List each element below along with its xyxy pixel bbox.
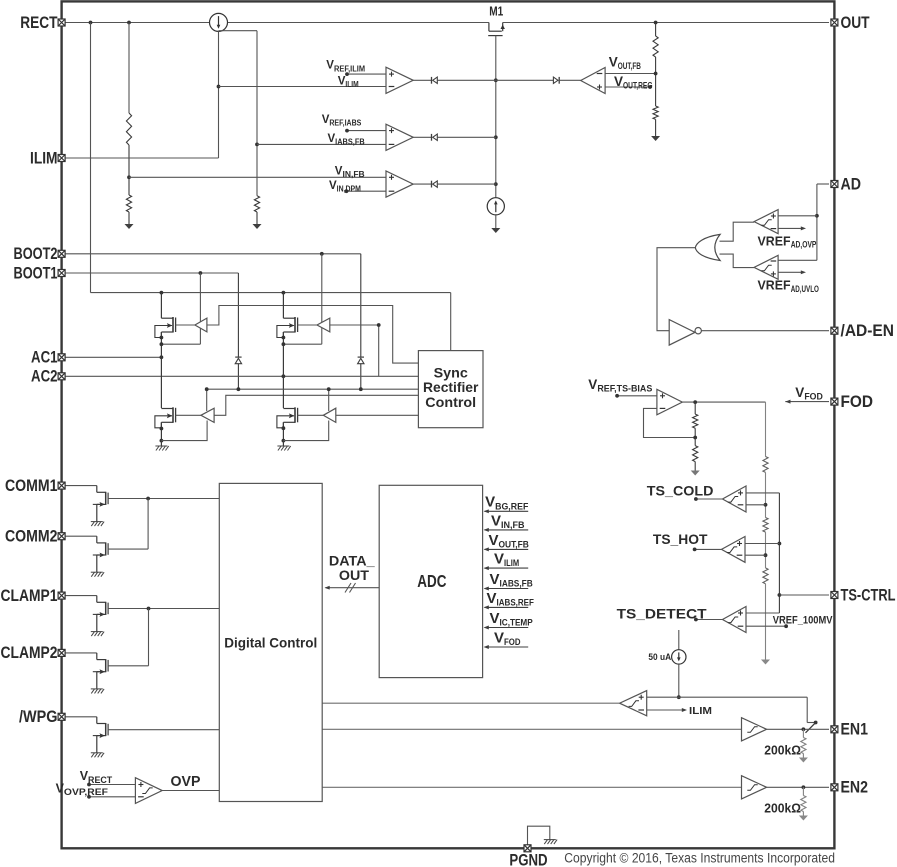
svg-text:OUT: OUT	[339, 567, 370, 583]
svg-text:BOOT1: BOOT1	[14, 264, 58, 282]
svg-text:ILIM: ILIM	[30, 149, 58, 167]
svg-text:COMM2: COMM2	[5, 528, 58, 546]
svg-text:200kΩ: 200kΩ	[764, 800, 801, 815]
svg-text:AD: AD	[841, 175, 862, 193]
svg-text:RECT: RECT	[20, 14, 57, 32]
svg-text:PGND: PGND	[509, 851, 547, 867]
svg-text:/WPG: /WPG	[19, 708, 58, 726]
svg-text:Control: Control	[425, 394, 476, 410]
svg-text:VREF: VREF	[758, 233, 791, 248]
svg-text:EN2: EN2	[841, 779, 869, 797]
svg-text:Sync: Sync	[434, 364, 468, 380]
svg-text:AC1: AC1	[31, 349, 58, 367]
svg-text:OUT: OUT	[841, 14, 870, 32]
svg-text:AD,UVLO: AD,UVLO	[791, 284, 819, 294]
svg-text:TS-CTRL: TS-CTRL	[841, 586, 896, 604]
svg-text:/AD-EN: /AD-EN	[841, 322, 895, 340]
svg-text:VREF_100MV: VREF_100MV	[773, 615, 833, 627]
svg-text:AD,OVP: AD,OVP	[791, 240, 817, 250]
svg-text:COMM1: COMM1	[5, 477, 58, 495]
svg-text:BOOT2: BOOT2	[14, 245, 58, 263]
svg-text:AC2: AC2	[31, 368, 58, 386]
svg-text:FOD: FOD	[841, 393, 874, 411]
svg-text:VREF: VREF	[758, 278, 791, 293]
svg-text:ILIM: ILIM	[689, 705, 712, 717]
svg-text:TS_DETECT: TS_DETECT	[617, 606, 707, 622]
svg-text:EN1: EN1	[841, 721, 869, 739]
svg-text:TS_COLD: TS_COLD	[647, 483, 714, 499]
svg-text:M1: M1	[489, 4, 503, 18]
svg-text:Rectifier: Rectifier	[423, 379, 479, 395]
svg-text:CLAMP1: CLAMP1	[1, 587, 58, 605]
svg-text:ADC: ADC	[417, 571, 446, 591]
svg-text:CLAMP2: CLAMP2	[1, 644, 58, 662]
svg-text:200kΩ: 200kΩ	[764, 742, 801, 757]
svg-text:Copyright © 2016, Texas Instru: Copyright © 2016, Texas Instruments Inco…	[564, 850, 835, 866]
svg-text:Digital Control: Digital Control	[224, 634, 317, 650]
svg-text:50 uA: 50 uA	[648, 652, 671, 662]
svg-text:OVP: OVP	[171, 774, 201, 790]
svg-text:TS_HOT: TS_HOT	[653, 531, 708, 547]
